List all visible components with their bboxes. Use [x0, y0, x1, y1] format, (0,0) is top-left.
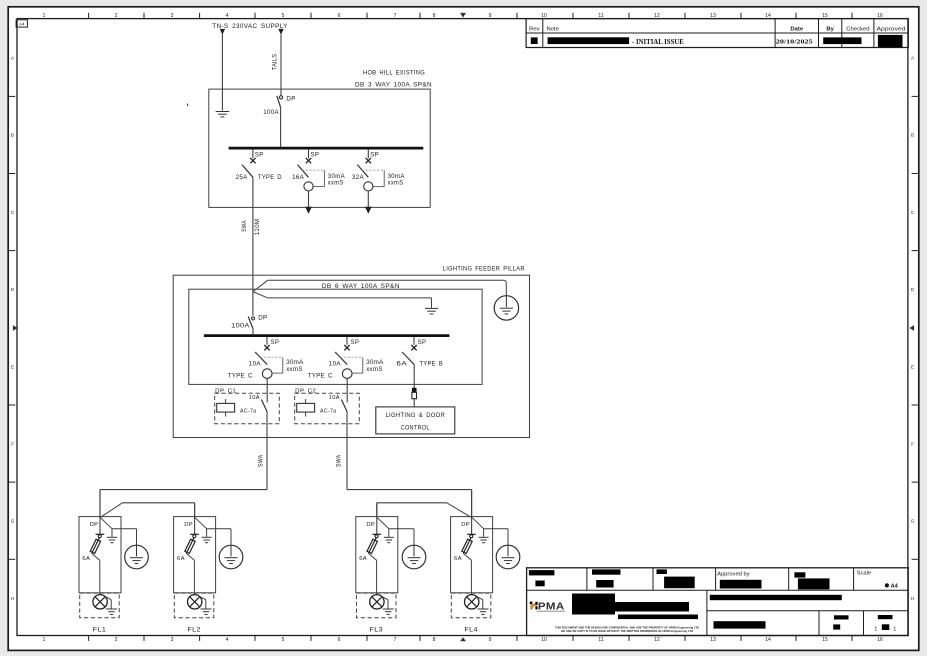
- switch-fuse contact circle: [470, 535, 473, 538]
- svg-text:10A: 10A: [249, 360, 262, 367]
- svg-text:13: 13: [710, 637, 716, 643]
- wire: busbar tap: [367, 149, 369, 158]
- supply arrow (live tail): [278, 29, 283, 35]
- svg-text:5: 5: [282, 637, 285, 643]
- wire: busbar tap: [346, 337, 348, 345]
- RCD linkage (dashed): [362, 169, 384, 171]
- ground (internal): [384, 536, 394, 538]
- svg-text:FL1: FL1: [93, 628, 107, 634]
- wire: earth tail: [100, 517, 112, 529]
- RCD toroid: [262, 369, 272, 379]
- svg-text:DB 3 WAY 100A SP&N: DB 3 WAY 100A SP&N: [355, 81, 432, 88]
- title drawing-title redaction: [710, 595, 842, 600]
- wire: DP to busbar: [252, 329, 254, 335]
- svg-text:FL2: FL2: [187, 628, 201, 634]
- rev row: approved redaction box: [878, 35, 903, 47]
- svg-text:xxmS: xxmS: [366, 366, 383, 373]
- svg-text:2: 2: [115, 637, 118, 643]
- ground (DB earth bar): [425, 307, 438, 309]
- wire: busbar tap: [308, 149, 310, 158]
- luminaire (lamp): [370, 595, 384, 609]
- earth electrode (circled): [125, 545, 149, 569]
- box LIGHTING & DOOR CONTROL: [376, 407, 455, 434]
- svg-text:6: 6: [338, 13, 341, 19]
- isolator DP (pillar): blade: [248, 317, 253, 329]
- RCD linkage right: [362, 357, 364, 373]
- title drawing-number redaction: [714, 621, 766, 628]
- svg-text:16A: 16A: [292, 174, 305, 181]
- ground (supply earth): [216, 111, 230, 113]
- ground (internal): [479, 536, 489, 538]
- isolator DP: blade: [277, 96, 281, 108]
- svg-text:3: 3: [171, 13, 174, 19]
- wire: FL4 incomer: [471, 490, 473, 534]
- svg-text:B: B: [911, 133, 914, 138]
- svg-text:Checked: Checked: [846, 27, 869, 33]
- svg-text:TYPE B: TYPE B: [420, 360, 444, 367]
- ground (internal): [202, 536, 212, 538]
- RCD linkage bottom: [272, 372, 283, 374]
- wire: DP to busbar: [280, 107, 282, 147]
- wire: to earth electrode: [484, 528, 508, 530]
- svg-text:3: 3: [171, 637, 174, 643]
- svg-text:AC-7a: AC-7a: [240, 408, 257, 414]
- wire: earth tail: [377, 517, 389, 529]
- RCD linkage (dashed): [340, 356, 363, 358]
- RCD linkage right: [383, 170, 385, 186]
- svg-text:Scale: Scale: [857, 571, 872, 577]
- svg-text:- INITIAL ISSUE: - INITIAL ISSUE: [632, 39, 684, 46]
- contactor coil: [297, 403, 315, 412]
- svg-text:5: 5: [282, 13, 285, 19]
- busbar (DB 3 way): [229, 147, 424, 150]
- wire: to earth electrode: [389, 528, 414, 530]
- isolator DP (pillar): contact circle: [252, 317, 255, 320]
- ground (internal): [107, 536, 117, 538]
- svg-text:G: G: [11, 519, 15, 524]
- svg-text:F: F: [11, 442, 14, 447]
- DB enclosure (6 way): [189, 289, 482, 384]
- svg-text:SP: SP: [418, 340, 427, 346]
- svg-text:DP: DP: [366, 522, 375, 528]
- wire: lamp earth: [105, 597, 111, 600]
- RCD toroid: [304, 182, 313, 191]
- svg-text:110M: 110M: [255, 219, 261, 236]
- svg-text:100A: 100A: [263, 109, 279, 116]
- wire: loop FL4 to FL3: [447, 503, 472, 518]
- dashed luminaire enclosure: [357, 593, 397, 618]
- revision table: [526, 19, 908, 48]
- svg-text:HOB HILL EXISTING: HOB HILL EXISTING: [363, 69, 425, 76]
- switch contact bar: [96, 533, 105, 535]
- RCD linkage right: [323, 170, 325, 186]
- breaker blade: [255, 352, 267, 365]
- wire: 6A way down: [413, 365, 415, 388]
- title cell5 label redaction: [794, 572, 805, 577]
- fuse link solid head: [412, 388, 417, 393]
- fuse body: [462, 539, 472, 553]
- svg-text:SWA: SWA: [258, 455, 264, 468]
- wire: loop FL1 to FL2: [100, 503, 122, 518]
- wire: busbar tap: [266, 337, 268, 345]
- svg-text:FL4: FL4: [464, 628, 478, 634]
- breaker blade: [335, 352, 347, 365]
- wire: SWA drop (circuit C1): [266, 412, 268, 490]
- svg-text:6A: 6A: [454, 556, 462, 562]
- svg-text:NO USE OR COPY IS TO BE MADE W: NO USE OR COPY IS TO BE MADE WITHOUT THE…: [561, 629, 694, 633]
- svg-text:9: 9: [489, 13, 492, 19]
- svg-text:SP: SP: [255, 152, 264, 158]
- enclosure FL3: [356, 517, 398, 593]
- switch-fuse contact circle: [98, 535, 101, 538]
- RCD linkage (dashed): [302, 169, 324, 171]
- svg-text:DP: DP: [184, 522, 193, 528]
- svg-text:11: 11: [598, 637, 603, 643]
- overcurrent X mark: [366, 158, 371, 163]
- svg-text:4: 4: [226, 637, 229, 643]
- title rev-cell label redaction: [834, 615, 849, 619]
- svg-text:2: 2: [115, 13, 118, 19]
- switch-fuse contact circle: [193, 535, 196, 538]
- svg-text:7: 7: [394, 13, 397, 19]
- wire: supply earth tail: [221, 34, 223, 110]
- contactor contact blade: [261, 400, 267, 412]
- outgoing feeder arrow: [365, 207, 372, 214]
- svg-text:1: 1: [893, 626, 896, 632]
- wire: outgoing way: [308, 191, 310, 207]
- stray mark: [186, 104, 189, 107]
- svg-text:6: 6: [338, 637, 341, 643]
- dashed luminaire enclosure: [451, 593, 491, 618]
- wire: busbar tap: [252, 149, 254, 158]
- wire: earth tail: [195, 517, 207, 529]
- border ruler ticks (left): [9, 95, 15, 97]
- svg-text:H: H: [11, 596, 14, 601]
- svg-text:Note: Note: [547, 27, 560, 33]
- wire: 25A way SWA cable to pillar: [252, 177, 254, 315]
- dashed enclosure DP C1: [215, 393, 280, 424]
- overcurrent X mark: [264, 345, 269, 350]
- wire: RCD to contactor: [346, 378, 348, 402]
- svg-text:E: E: [11, 364, 14, 369]
- svg-text:LIGHTING FEEDER PILLAR: LIGHTING FEEDER PILLAR: [443, 266, 525, 272]
- svg-text:8: 8: [433, 637, 436, 643]
- svg-text:6A: 6A: [359, 556, 367, 562]
- overcurrent X mark: [344, 345, 349, 350]
- wire: FL1 incomer: [99, 490, 101, 534]
- svg-text:DP: DP: [258, 314, 267, 321]
- overcurrent X mark: [306, 158, 311, 163]
- svg-text:G: G: [911, 519, 915, 524]
- pillar enclosure: [173, 275, 529, 437]
- wire: SWA drop (circuit C2): [346, 412, 348, 490]
- busbar (DB 6 way): [204, 334, 450, 337]
- svg-text:1: 1: [43, 13, 46, 19]
- svg-text:25A: 25A: [236, 174, 249, 181]
- centre marker bottom: [460, 637, 466, 641]
- svg-text:Approved: Approved: [877, 27, 906, 33]
- wire: run to FL1: [100, 489, 267, 491]
- svg-text:F: F: [911, 442, 914, 447]
- centre marker left: [13, 325, 18, 331]
- fuse body: [185, 539, 195, 553]
- svg-text:A4: A4: [891, 584, 899, 590]
- wire: outgoing way: [367, 191, 369, 207]
- title cell2 value redaction: [596, 580, 613, 588]
- A4 sheet-size box: [16, 20, 27, 27]
- border ruler ticks (right): [912, 95, 918, 97]
- svg-text:DP: DP: [461, 522, 470, 528]
- wire: earth tail: [472, 517, 484, 529]
- wire: lamp earth: [477, 597, 483, 600]
- wire: supply live tail: [280, 34, 282, 95]
- svg-text:10A: 10A: [329, 360, 342, 367]
- svg-text:TYPE D: TYPE D: [258, 174, 282, 181]
- enclosure FL1: [79, 517, 121, 593]
- fuse link body: [412, 392, 417, 398]
- svg-text:TYPE C: TYPE C: [308, 373, 333, 380]
- switch contact bar: [467, 533, 476, 535]
- svg-text:SWA: SWA: [242, 220, 248, 232]
- svg-text:H: H: [911, 596, 914, 601]
- switch-fuse blade: [186, 538, 194, 554]
- rev row: rev mark (redacted): [531, 37, 538, 44]
- dashed luminaire enclosure: [174, 593, 214, 618]
- switch-fuse blade: [463, 538, 471, 554]
- earth electrode symbol (circled): [494, 296, 518, 320]
- svg-text:14: 14: [765, 637, 771, 643]
- PMA company logo: [530, 602, 533, 605]
- enclosure FL2: [174, 517, 216, 593]
- enclosure FL4: [451, 517, 493, 593]
- wire: fuse to lamp: [463, 553, 471, 560]
- svg-text:By: By: [826, 27, 834, 33]
- svg-text:6A: 6A: [396, 360, 407, 367]
- title block: [527, 568, 909, 636]
- switch-fuse blade: [369, 538, 377, 554]
- switch contact bar: [190, 533, 199, 535]
- title company web redaction: [618, 615, 698, 620]
- breaker blade: [298, 165, 309, 178]
- svg-text:FL3: FL3: [370, 628, 384, 634]
- svg-text:E: E: [911, 364, 914, 369]
- svg-text:10: 10: [541, 637, 547, 643]
- ground (luminaire): [201, 608, 212, 610]
- RCD toroid: [364, 182, 373, 191]
- svg-text:6A: 6A: [177, 556, 185, 562]
- svg-text:12: 12: [654, 637, 660, 643]
- leader: DB name flag: [253, 280, 268, 292]
- earth electrode (circled): [496, 545, 520, 569]
- svg-text:100A: 100A: [231, 323, 250, 330]
- svg-text:9: 9: [489, 637, 492, 643]
- title company contact redaction: [612, 602, 689, 612]
- title cell1 label redaction: [529, 570, 555, 575]
- earth electrode (circled): [402, 545, 426, 569]
- svg-text:Date: Date: [790, 27, 803, 33]
- supply arrow (earth tail): [220, 29, 225, 35]
- svg-text:DP: DP: [286, 95, 295, 102]
- centre marker right: [909, 325, 914, 331]
- svg-text:4: 4: [226, 13, 229, 19]
- dashed enclosure DP C2: [295, 393, 360, 424]
- title cell3 value redaction: [664, 577, 695, 589]
- switch contact bar: [372, 533, 381, 535]
- svg-text:xxmS: xxmS: [328, 179, 344, 186]
- svg-text:DP: DP: [90, 522, 99, 528]
- ground (luminaire): [383, 608, 394, 610]
- RCD linkage bottom: [373, 186, 384, 188]
- svg-text:DP C1: DP C1: [215, 388, 236, 394]
- svg-text:xxmS: xxmS: [286, 366, 303, 373]
- luminaire (lamp): [465, 595, 479, 609]
- svg-text:AC-7a: AC-7a: [320, 408, 337, 414]
- svg-text:DP C2: DP C2: [295, 388, 316, 394]
- outgoing feeder arrow: [305, 207, 312, 214]
- svg-text:Rev: Rev: [529, 27, 540, 33]
- svg-text:6A: 6A: [82, 556, 90, 562]
- ground (luminaire): [478, 608, 489, 610]
- fuse body: [90, 539, 100, 553]
- luminaire (lamp): [93, 595, 107, 609]
- wire: fuse to lamp: [186, 553, 194, 560]
- svg-text:1: 1: [874, 626, 877, 632]
- svg-text:TAILS: TAILS: [272, 54, 278, 70]
- wire: lamp earth: [382, 597, 388, 600]
- scale symbol + A4: [885, 583, 889, 587]
- overcurrent X mark: [411, 345, 416, 350]
- svg-text:10A: 10A: [329, 395, 340, 401]
- svg-text:CONTROL: CONTROL: [401, 425, 430, 432]
- wire: busbar tap: [413, 337, 415, 345]
- wire: to earth electrode: [112, 528, 137, 530]
- RCD linkage bottom: [352, 372, 363, 374]
- wire: FL3 incomer: [376, 503, 378, 534]
- DB enclosure (HOB HILL): [209, 89, 430, 207]
- svg-text:SP: SP: [370, 152, 379, 158]
- svg-text:20/10/2025: 20/10/2025: [776, 39, 814, 46]
- svg-text:LIGHTING & DOOR: LIGHTING & DOOR: [385, 412, 445, 419]
- RCD linkage (dashed): [260, 356, 283, 358]
- RCD toroid: [342, 369, 352, 379]
- isolator DP: contact circle: [279, 96, 282, 99]
- title company address redaction: [572, 594, 615, 615]
- svg-text:Approved by: Approved by: [717, 572, 750, 578]
- wire: to earth electrode: [207, 528, 231, 530]
- title cell3 label redaction: [657, 569, 667, 574]
- svg-text:A4: A4: [19, 22, 25, 27]
- centre marker top: [460, 13, 466, 18]
- ground (luminaire): [106, 608, 117, 610]
- border ruler ticks (bottom): [88, 636, 90, 641]
- fuse body: [367, 539, 377, 553]
- svg-text:1: 1: [43, 637, 46, 643]
- rev row: by/checked redaction bar: [823, 37, 861, 44]
- rev row: note redaction bar: [548, 37, 630, 44]
- overcurrent X mark: [250, 158, 255, 163]
- svg-text:8: 8: [433, 13, 436, 19]
- wire: fuse to lamp: [369, 553, 377, 560]
- svg-text:xxmS: xxmS: [388, 179, 404, 186]
- svg-text:B: B: [11, 133, 14, 138]
- svg-text:7: 7: [394, 637, 397, 643]
- title cell2 label redaction: [592, 569, 621, 574]
- svg-text:SWA: SWA: [337, 455, 343, 468]
- title cell4 value redaction: [720, 580, 762, 589]
- svg-text:SP: SP: [271, 340, 280, 346]
- wire: run to FL4: [347, 489, 472, 491]
- wire: RCD to contactor: [266, 378, 268, 402]
- svg-text:16: 16: [877, 637, 883, 643]
- breaker blade: [357, 165, 368, 178]
- title cell5 value redaction: [798, 578, 830, 589]
- wire: FL2 incomer: [194, 503, 196, 534]
- switch-fuse blade: [92, 538, 100, 554]
- breaker blade: [402, 352, 414, 365]
- title cell1 value redaction: [535, 581, 544, 587]
- dashed luminaire enclosure: [80, 593, 120, 618]
- contactor coil: [217, 403, 235, 412]
- svg-text:10A: 10A: [249, 395, 260, 401]
- luminaire (lamp): [188, 595, 202, 609]
- switch-fuse contact circle: [375, 535, 378, 538]
- breaker blade: [242, 165, 253, 178]
- leader: earth bond: [253, 292, 268, 298]
- svg-text:SP: SP: [311, 152, 320, 158]
- wire: lamp earth: [200, 597, 206, 600]
- svg-text:DB 6 WAY 100A SP&N: DB 6 WAY 100A SP&N: [322, 283, 400, 290]
- svg-text:TYPE C: TYPE C: [228, 373, 253, 380]
- svg-text:32A: 32A: [352, 174, 365, 181]
- contactor contact blade: [341, 400, 347, 412]
- RCD linkage bottom: [313, 186, 324, 188]
- wire: fuse to lamp: [92, 553, 100, 560]
- coil lead: [305, 399, 307, 417]
- border ruler ticks (top): [88, 13, 90, 18]
- title rev-cell value redaction: [833, 624, 840, 629]
- RCD linkage right: [282, 357, 284, 373]
- title sheet-cell label redaction: [878, 615, 893, 619]
- earth electrode (circled): [219, 545, 243, 569]
- wire: to control box: [413, 399, 415, 407]
- coil lead: [225, 399, 227, 417]
- svg-text:SP: SP: [351, 340, 360, 346]
- svg-text:15: 15: [822, 637, 828, 643]
